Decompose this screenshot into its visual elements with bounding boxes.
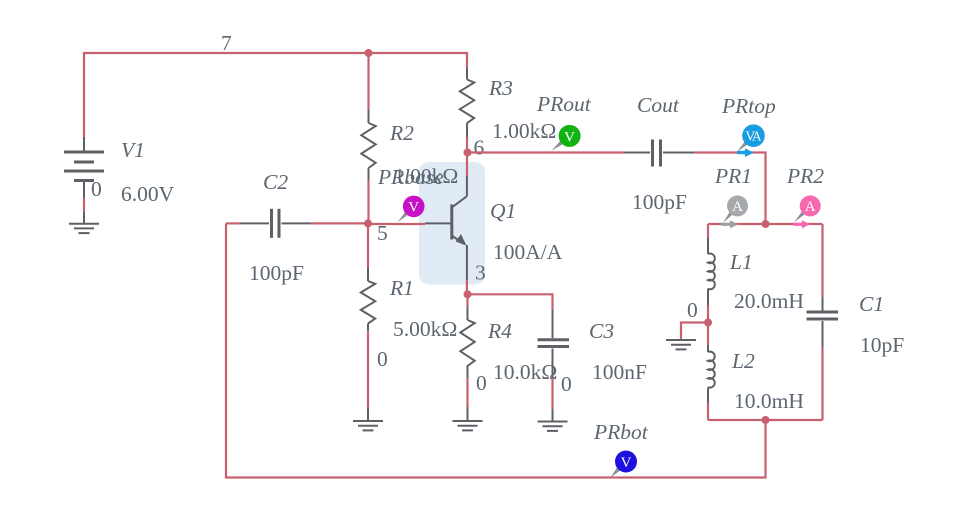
wire V1 to ground bbox=[83, 198, 85, 212]
svg-text:10.0kΩ: 10.0kΩ bbox=[493, 360, 557, 384]
probe PR1 bbox=[714, 164, 752, 223]
svg-text:1.00kΩ: 1.00kΩ bbox=[492, 119, 556, 143]
svg-text:0: 0 bbox=[476, 371, 487, 395]
probe PRbot bbox=[593, 420, 649, 478]
resistor R1 bbox=[361, 267, 375, 331]
svg-text:0: 0 bbox=[91, 177, 102, 201]
Q1 emitter arrow bbox=[456, 234, 467, 246]
wire node5 bus bbox=[369, 223, 426, 225]
node 3 junction bbox=[464, 290, 472, 298]
capacitor Cout bbox=[624, 140, 694, 167]
inductor L1 bbox=[708, 224, 715, 323]
wire node3 to C3 bbox=[468, 294, 553, 310]
svg-text:6: 6 bbox=[474, 136, 485, 160]
highlight box around Q1 bbox=[419, 162, 485, 285]
svg-text:R2: R2 bbox=[389, 121, 414, 145]
node 0 junction (tank) bbox=[704, 319, 712, 327]
node 7 junction bbox=[365, 49, 373, 57]
wire Q1 emitter to node 3 bbox=[466, 280, 468, 294]
svg-text:R1: R1 bbox=[389, 276, 414, 300]
svg-text:R4: R4 bbox=[487, 319, 512, 343]
resistor R4 bbox=[460, 307, 474, 378]
node 6 junction bbox=[464, 149, 472, 157]
svg-text:100nF: 100nF bbox=[592, 360, 647, 384]
ground (R4) bbox=[453, 421, 483, 430]
battery V1 bbox=[64, 137, 104, 198]
capacitor C3 bbox=[538, 310, 570, 378]
svg-text:V: V bbox=[621, 455, 632, 471]
wire node6 to Q1 collector bbox=[466, 153, 468, 177]
probe PRout bbox=[536, 92, 592, 151]
wire top bus node 7 bbox=[84, 53, 467, 139]
svg-text:20.0mH: 20.0mH bbox=[734, 289, 804, 313]
probe PRtop bbox=[721, 94, 776, 152]
svg-text:V1: V1 bbox=[121, 138, 145, 162]
capacitor C1 bbox=[807, 224, 839, 420]
svg-text:PRtop: PRtop bbox=[721, 94, 776, 118]
wire node5 to R1 bbox=[367, 223, 369, 267]
wire C3 to ground bbox=[551, 378, 553, 410]
svg-text:PR2: PR2 bbox=[786, 164, 824, 188]
ground (V1) bbox=[69, 224, 99, 233]
svg-text:5: 5 bbox=[377, 221, 388, 245]
svg-text:Q1: Q1 bbox=[490, 199, 516, 223]
probe PR2 bbox=[786, 164, 824, 222]
svg-text:PRbot: PRbot bbox=[593, 420, 649, 444]
svg-text:100A/A: 100A/A bbox=[493, 240, 563, 264]
resistor R3 bbox=[460, 68, 474, 137]
svg-text:10.0mH: 10.0mH bbox=[734, 389, 804, 413]
svg-text:C2: C2 bbox=[263, 170, 288, 194]
svg-text:7: 7 bbox=[221, 31, 232, 55]
capacitor C2 bbox=[226, 209, 368, 238]
ground (C3) bbox=[538, 422, 568, 431]
wire node3 to R4 bbox=[466, 294, 468, 307]
svg-text:0: 0 bbox=[687, 298, 698, 322]
tank top bus bbox=[708, 223, 823, 225]
svg-text:V: V bbox=[408, 200, 419, 216]
svg-text:C1: C1 bbox=[859, 292, 884, 316]
node 5 junction bbox=[364, 219, 372, 227]
transistor Q1 bbox=[425, 176, 467, 280]
svg-text:Cout: Cout bbox=[637, 93, 680, 117]
PR1 direction arrow bbox=[722, 223, 731, 226]
svg-text:3: 3 bbox=[475, 261, 486, 285]
svg-text:0: 0 bbox=[561, 372, 572, 396]
wire C2 left down and bottom bus bbox=[226, 223, 766, 477]
PRtop direction arrow bbox=[737, 151, 745, 154]
tank bottom bus bbox=[708, 419, 823, 421]
svg-text:R3: R3 bbox=[488, 76, 513, 100]
svg-text:L1: L1 bbox=[729, 250, 753, 274]
junction bottom bus bbox=[762, 416, 770, 424]
svg-text:L2: L2 bbox=[731, 349, 755, 373]
svg-text:10pF: 10pF bbox=[860, 333, 904, 357]
wire R2 to node5 bbox=[367, 180, 369, 223]
svg-text:V: V bbox=[564, 129, 575, 145]
svg-text:A: A bbox=[752, 128, 762, 143]
svg-text:A: A bbox=[805, 199, 816, 215]
wire node7 to R2 bbox=[367, 53, 369, 110]
svg-text:PRbase: PRbase bbox=[377, 165, 444, 189]
svg-text:A: A bbox=[732, 199, 743, 215]
junction top bus bbox=[762, 220, 770, 228]
probe PRbase bbox=[377, 165, 444, 222]
svg-text:100pF: 100pF bbox=[632, 190, 687, 214]
wire R1 to ground bbox=[367, 331, 369, 407]
svg-text:100pF: 100pF bbox=[249, 261, 304, 285]
svg-text:5.00kΩ: 5.00kΩ bbox=[393, 317, 457, 341]
svg-text:PRout: PRout bbox=[536, 92, 592, 116]
wire R4 to ground bbox=[466, 378, 468, 407]
svg-text:C3: C3 bbox=[589, 319, 614, 343]
resistor R2 bbox=[361, 110, 375, 181]
svg-text:6.00V: 6.00V bbox=[121, 182, 175, 206]
svg-text:0: 0 bbox=[377, 347, 388, 371]
wire node6 to Cout bbox=[467, 151, 624, 153]
inductor L2 bbox=[708, 323, 715, 421]
wire Cout to top-right corner bbox=[694, 153, 766, 225]
wire tank to ground bbox=[681, 323, 708, 340]
ground (R1) bbox=[353, 421, 383, 430]
svg-text:PR1: PR1 bbox=[714, 164, 752, 188]
PR2 direction arrow bbox=[794, 223, 803, 226]
ground (tank) bbox=[666, 340, 696, 349]
wire R3 to node 6 bbox=[466, 137, 468, 153]
